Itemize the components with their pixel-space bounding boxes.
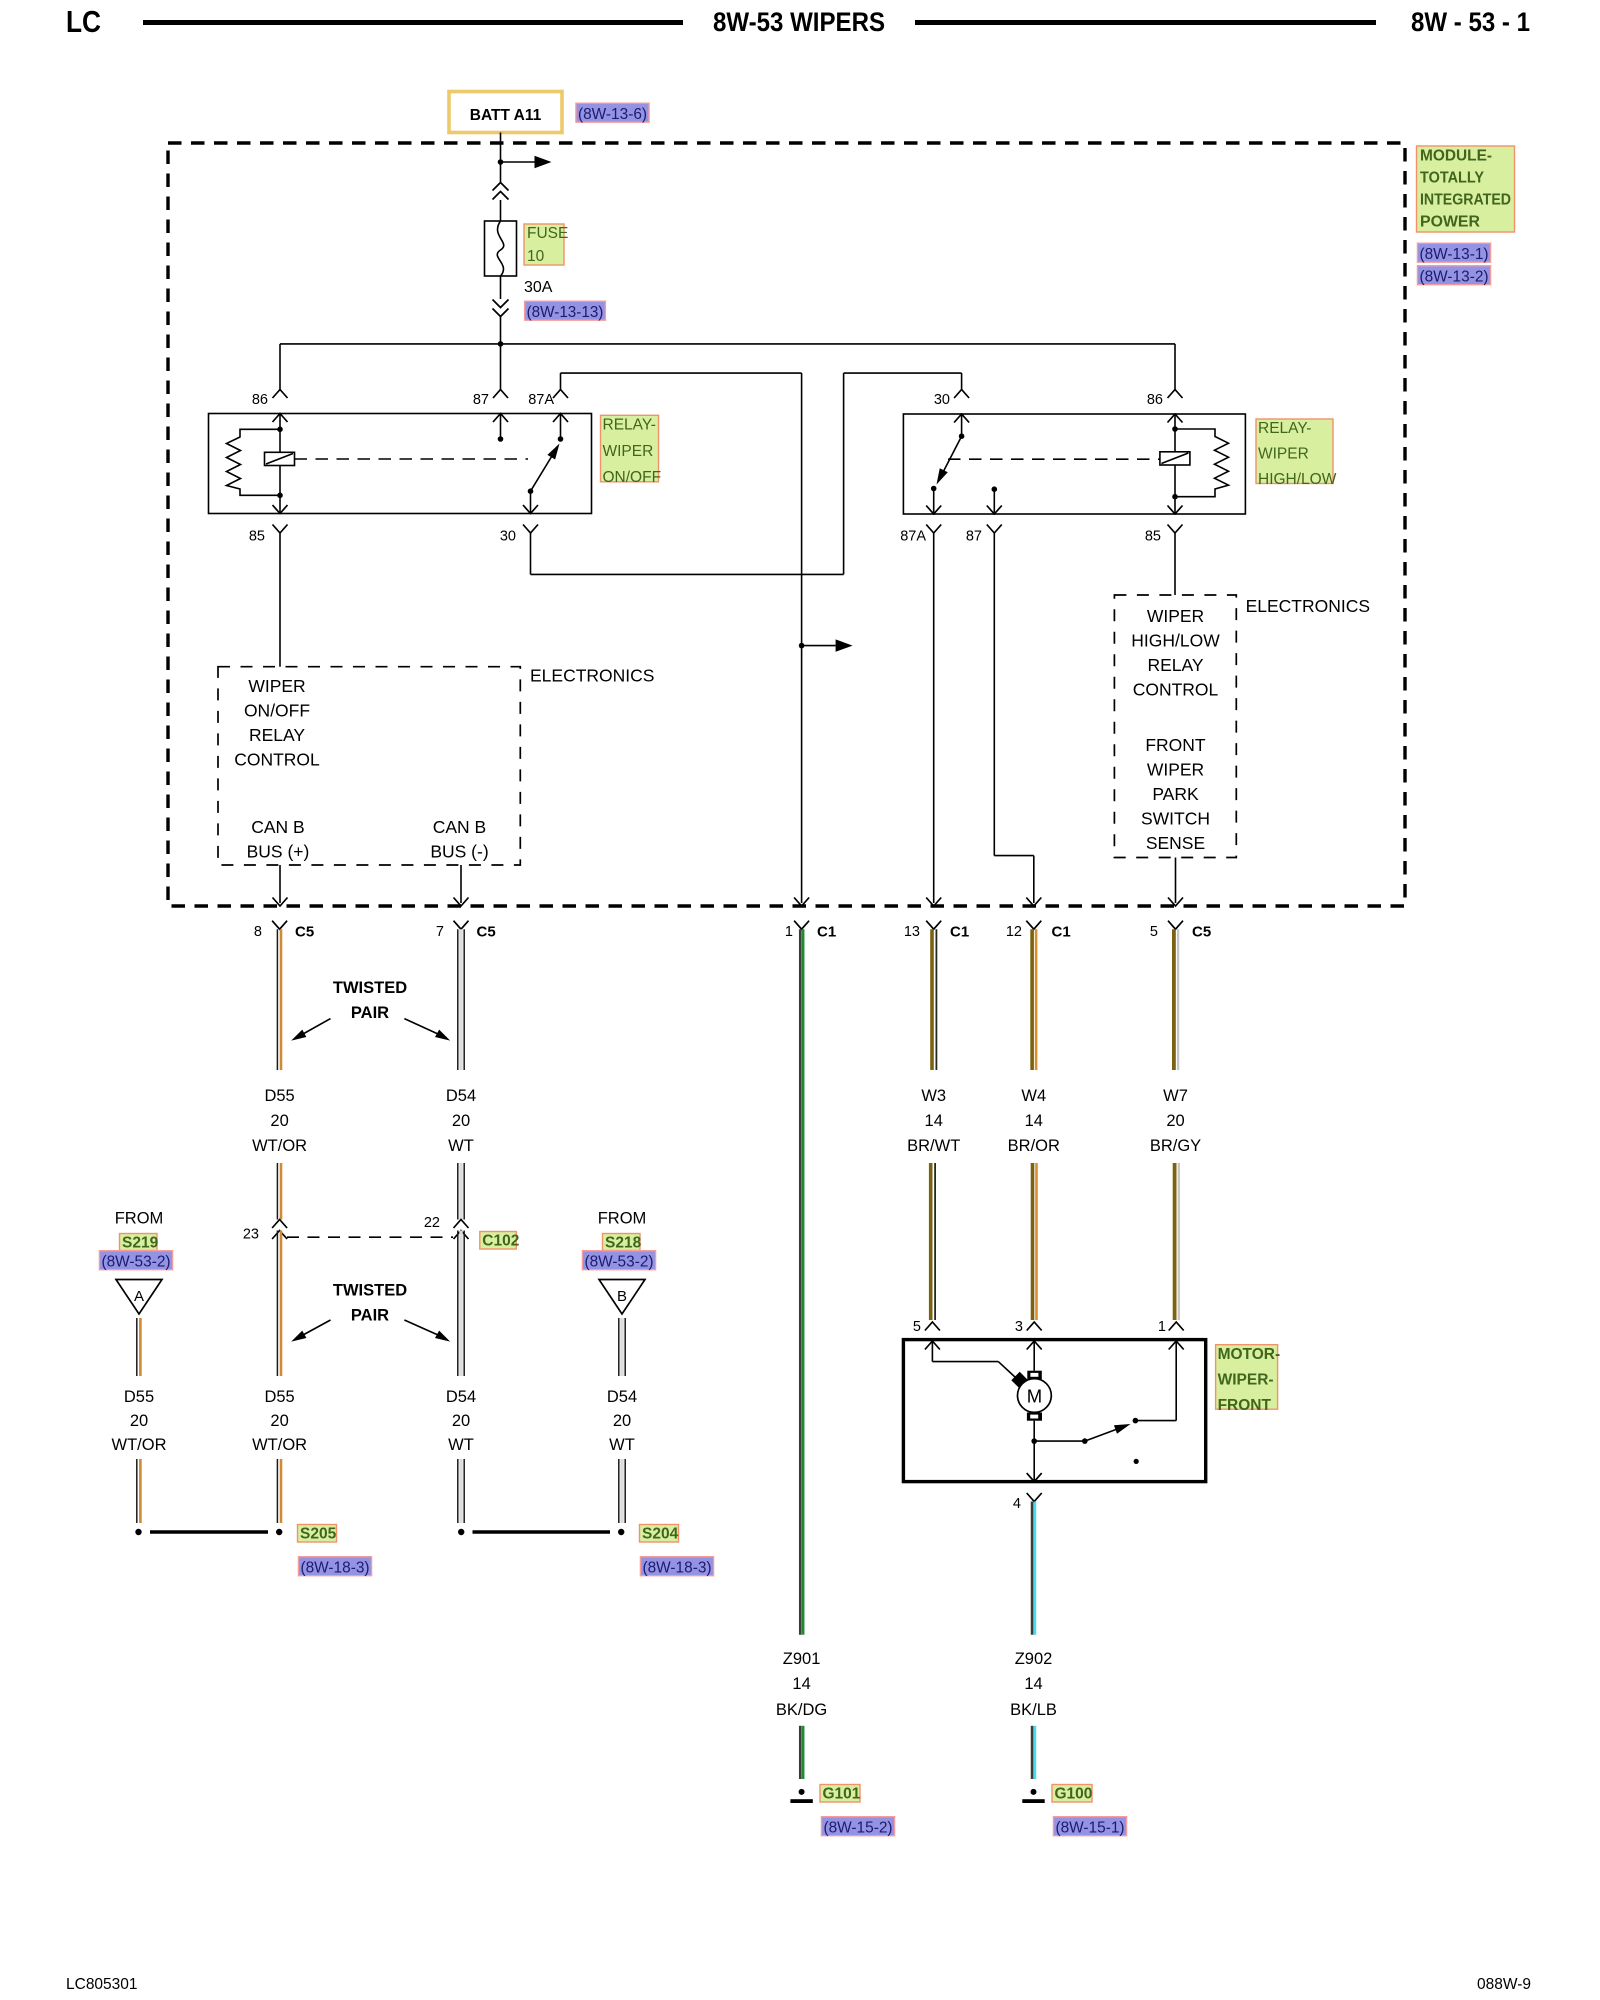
- svg-text:20: 20: [270, 1412, 288, 1430]
- svg-text:PAIR: PAIR: [351, 1004, 389, 1022]
- relay1 pin 87 stub: [500, 414, 502, 440]
- svg-text:BR/GY: BR/GY: [1150, 1137, 1201, 1155]
- svg-text:(8W-13-1): (8W-13-1): [1419, 246, 1488, 263]
- header rule left: [143, 20, 683, 25]
- svg-text:WIPER: WIPER: [603, 443, 654, 460]
- svg-text:BK/DG: BK/DG: [776, 1701, 827, 1719]
- motor pin 1 box-edge arrow: [1169, 1341, 1184, 1350]
- motor pin 4 internal wire: [1033, 1441, 1035, 1482]
- label G100: [1052, 1785, 1092, 1803]
- wire fuse to chevron: [500, 276, 502, 299]
- relay1 pin 30 stub: [530, 491, 532, 513]
- relay K1 RELAY-WIPER ON/OFF box: [209, 414, 592, 514]
- svg-text:ON/OFF: ON/OFF: [244, 701, 310, 721]
- relay2 pin 30 stub: [961, 414, 963, 436]
- relay1 coil top junction dot: [277, 427, 283, 433]
- wire W4 BR/OR upper: [1030, 929, 1034, 1070]
- svg-text:M: M: [1027, 1385, 1042, 1406]
- wire 87A net down to ground feed: [801, 373, 803, 903]
- svg-text:D55: D55: [264, 1087, 294, 1105]
- svg-text:86: 86: [252, 392, 268, 408]
- relay2 pin 30 connector chevron: [954, 390, 969, 399]
- wire park switch sense to connector: [1175, 858, 1177, 904]
- wire W4 BR/OR lower: [1031, 1163, 1035, 1320]
- svg-text:14: 14: [925, 1112, 943, 1130]
- svg-text:A: A: [134, 1288, 144, 1305]
- relay2 coil vertical wire: [1174, 414, 1176, 514]
- label MODULE-TOTALLY INTEGRATED POWER: [1417, 146, 1515, 232]
- ground G101 symbol: [799, 1789, 805, 1795]
- svg-text:W7: W7: [1163, 1087, 1188, 1105]
- label MOTOR-WIPER-FRONT: [1216, 1345, 1278, 1410]
- label C102: [480, 1232, 517, 1250]
- relay1 actuation dashed link: [295, 458, 529, 460]
- wire Z902 BK/LB upper: [1031, 1502, 1034, 1635]
- svg-text:PARK: PARK: [1152, 784, 1199, 804]
- motor brush top: [1027, 1371, 1042, 1379]
- relay K2 RELAY-WIPER HIGH/LOW box: [903, 414, 1245, 514]
- connector pin 8 C5: [272, 921, 287, 930]
- svg-text:(8W-15-2): (8W-15-2): [823, 1820, 892, 1837]
- motor armature circle M: [1018, 1379, 1052, 1413]
- svg-text:W3: W3: [921, 1087, 946, 1105]
- label S205: [298, 1525, 337, 1543]
- svg-text:WIPER: WIPER: [1147, 760, 1204, 780]
- svg-text:C5: C5: [477, 924, 496, 941]
- svg-text:S205: S205: [300, 1526, 337, 1543]
- splice S204 bus: [473, 1530, 611, 1534]
- wire chevron to fuse: [500, 200, 502, 221]
- relay2 switch arm: [940, 436, 962, 479]
- off-page connector double chevron up: [493, 183, 509, 191]
- svg-text:22: 22: [424, 1215, 440, 1231]
- svg-text:14: 14: [1025, 1112, 1043, 1130]
- svg-text:BATT A11: BATT A11: [470, 107, 542, 124]
- svg-text:86: 86: [1147, 392, 1163, 408]
- motor pin 3 box-edge arrow: [1027, 1341, 1042, 1350]
- svg-text:CAN B: CAN B: [433, 817, 486, 837]
- connector C102 pin 22 chevron: [454, 1220, 469, 1229]
- wire CAN B plus to connector: [279, 865, 281, 903]
- svg-text:FUSE: FUSE: [527, 225, 568, 242]
- svg-text:BUS (-): BUS (-): [430, 842, 488, 862]
- svg-text:20: 20: [452, 1112, 470, 1130]
- wire D55 from triangle A: [136, 1318, 138, 1376]
- relay1 switch arm: [531, 449, 557, 492]
- wire relay2 87A down to connector: [933, 533, 935, 903]
- wire D55 WT/OR upper segment: [276, 929, 278, 1070]
- svg-text:S218: S218: [605, 1235, 642, 1252]
- wire bus down to relay1 pin 87: [500, 344, 502, 390]
- svg-text:(8W-15-1): (8W-15-1): [1055, 1820, 1124, 1837]
- svg-text:B: B: [617, 1288, 627, 1305]
- svg-text:30: 30: [934, 392, 950, 408]
- svg-text:D54: D54: [607, 1388, 637, 1406]
- twisted pair arrow right upper: [404, 1019, 438, 1034]
- svg-text:RELAY: RELAY: [1147, 655, 1203, 675]
- wire 30 net horizontal: [844, 372, 962, 374]
- svg-text:ON/OFF: ON/OFF: [603, 469, 662, 486]
- svg-text:87A: 87A: [900, 529, 926, 545]
- relay1 pin 87A stub: [560, 414, 562, 440]
- svg-text:C102: C102: [482, 1233, 519, 1250]
- svg-text:G100: G100: [1055, 1786, 1093, 1803]
- svg-text:SENSE: SENSE: [1146, 833, 1205, 853]
- arrow feed continues right: [501, 161, 535, 163]
- svg-text:(8W-13-13): (8W-13-13): [527, 304, 604, 321]
- wire bus down to relay2 pin 86: [1174, 344, 1176, 390]
- wire bus fuse output horizontal: [280, 343, 1175, 345]
- svg-text:C5: C5: [295, 924, 314, 941]
- svg-text:ELECTRONICS: ELECTRONICS: [1246, 596, 1370, 616]
- twisted pair arrow left lower: [303, 1320, 331, 1335]
- header rule right: [915, 20, 1376, 25]
- svg-text:C1: C1: [1052, 924, 1071, 941]
- motor park switch common wire: [1034, 1440, 1085, 1442]
- ground G100 symbol: [1031, 1789, 1037, 1795]
- svg-text:5: 5: [1150, 924, 1158, 940]
- connector pin 7 C5: [454, 921, 469, 930]
- motor M1 MOTOR-WIPER-FRONT box: [903, 1340, 1205, 1482]
- motor pin 3 internal wire: [1033, 1341, 1035, 1371]
- svg-text:BR/OR: BR/OR: [1008, 1137, 1060, 1155]
- relay2 coil resistor zigzag: [1175, 429, 1229, 497]
- wire stub to relay1 pin 87A: [560, 373, 562, 389]
- relay2 coil top junction dot: [1172, 426, 1178, 432]
- svg-text:7: 7: [436, 924, 444, 940]
- svg-text:PAIR: PAIR: [351, 1307, 389, 1325]
- wire stub to relay2 pin 30: [961, 373, 963, 389]
- wire BATT A11 to fuse: [500, 133, 502, 183]
- off-page triangle B: [599, 1280, 645, 1315]
- motor pin 4 connector chevron: [1027, 1493, 1042, 1502]
- relay1 pin 87 connector chevron: [493, 390, 508, 399]
- relay1 pin 85 box-edge arrow: [273, 505, 288, 514]
- relay2 pin 86 connector chevron: [1168, 390, 1183, 399]
- svg-text:(8W-18-3): (8W-18-3): [642, 1560, 711, 1577]
- svg-text:TOTALLY: TOTALLY: [1420, 170, 1485, 187]
- svg-text:C1: C1: [950, 924, 969, 941]
- svg-text:1: 1: [785, 924, 793, 940]
- motor park switch alternate contact dot: [1134, 1459, 1139, 1464]
- svg-text:87: 87: [473, 392, 489, 408]
- svg-text:FROM: FROM: [115, 1210, 164, 1228]
- junction dot battery feed: [498, 159, 504, 165]
- reference label (8W-13-2): [1417, 266, 1490, 285]
- reference label (8W-15-1): [1053, 1817, 1126, 1836]
- svg-text:WT: WT: [448, 1436, 474, 1454]
- svg-text:20: 20: [1166, 1112, 1184, 1130]
- off-page connector double chevron down: [493, 300, 509, 308]
- svg-text:BK/LB: BK/LB: [1010, 1701, 1057, 1719]
- wire relay1 pin85 to electronics: [279, 533, 281, 667]
- off-page triangle A: [116, 1280, 162, 1315]
- svg-text:Z902: Z902: [1015, 1650, 1053, 1668]
- svg-text:D55: D55: [264, 1388, 294, 1406]
- svg-text:S204: S204: [642, 1526, 679, 1543]
- svg-text:LC: LC: [66, 4, 101, 39]
- svg-text:WIPER: WIPER: [1258, 446, 1309, 463]
- label RELAY-WIPER HIGH/LOW: [1256, 419, 1333, 484]
- svg-text:12: 12: [1006, 924, 1022, 940]
- connector pin 12 C1: [1026, 921, 1041, 930]
- motor lower brush wire: [1033, 1421, 1035, 1441]
- reference label (8W-53-2) left: [99, 1251, 172, 1270]
- motor pin 1 connector chevron: [1169, 1322, 1184, 1331]
- connector pin 1 C1: [794, 921, 809, 930]
- junction dot ground feed: [799, 643, 805, 649]
- svg-text:W4: W4: [1021, 1087, 1046, 1105]
- wire Z901 BK/DG lower: [799, 1726, 802, 1779]
- svg-text:85: 85: [249, 529, 265, 545]
- svg-text:13: 13: [904, 924, 920, 940]
- svg-text:5: 5: [913, 1319, 921, 1335]
- svg-text:MODULE-: MODULE-: [1420, 148, 1492, 165]
- relay2 pin 87A stub: [933, 489, 935, 515]
- svg-text:14: 14: [792, 1675, 810, 1693]
- wire W3 BR/WT upper: [930, 929, 934, 1070]
- svg-text:WIPER-: WIPER-: [1218, 1371, 1274, 1388]
- relay2 pin 85 box-edge arrow: [1168, 506, 1183, 515]
- svg-text:RELAY: RELAY: [249, 725, 305, 745]
- svg-text:23: 23: [243, 1227, 259, 1243]
- relay1 pin 87A connector chevron: [553, 390, 568, 399]
- svg-text:14: 14: [1024, 1675, 1042, 1693]
- relay2 actuation dashed link: [948, 458, 1160, 460]
- svg-text:G101: G101: [823, 1786, 861, 1803]
- relay1 pin 85 connector chevron: [273, 525, 288, 534]
- reference label (8W-13-6): [576, 103, 649, 122]
- label G101: [820, 1785, 860, 1803]
- wire D54 col B lower: [620, 1459, 623, 1523]
- svg-text:LC805301: LC805301: [66, 1976, 138, 1993]
- svg-text:3: 3: [1015, 1319, 1023, 1335]
- relay1 coil resistor zigzag: [227, 429, 281, 495]
- svg-text:20: 20: [130, 1412, 148, 1430]
- svg-text:C5: C5: [1192, 924, 1211, 941]
- wire bus down to relay1 pin 86: [279, 344, 281, 390]
- splice S205 bus: [150, 1530, 268, 1534]
- relay1 pin 30 connector chevron: [523, 525, 538, 534]
- svg-text:D54: D54: [446, 1388, 476, 1406]
- wire D54 above splice: [459, 1459, 462, 1523]
- electronics dashed box wiper high/low relay control: [1114, 595, 1236, 858]
- svg-text:8W - 53 - 1: 8W - 53 - 1: [1411, 7, 1530, 37]
- relay1 pin 86 box-edge arrow: [273, 414, 288, 423]
- svg-text:(8W-13-6): (8W-13-6): [578, 106, 647, 123]
- svg-text:INTEGRATED: INTEGRATED: [1420, 192, 1511, 209]
- wire relay2 87 down to connector: [993, 533, 995, 856]
- connector C102 pin 23 chevron: [272, 1220, 287, 1229]
- relay2 pin 87 connector chevron: [987, 525, 1002, 534]
- svg-text:TWISTED: TWISTED: [333, 979, 407, 997]
- wire Z901 BK/DG upper: [799, 929, 802, 1634]
- svg-text:85: 85: [1145, 529, 1161, 545]
- wire Z902 BK/LB lower: [1031, 1726, 1034, 1779]
- motor brush diamond: [1011, 1372, 1028, 1389]
- svg-text:WT/OR: WT/OR: [252, 1436, 307, 1454]
- motor pin 5 connector chevron: [925, 1322, 940, 1331]
- svg-text:FROM: FROM: [598, 1210, 647, 1228]
- arrow ground feed continues right: [802, 645, 836, 647]
- svg-text:WT: WT: [448, 1137, 474, 1155]
- relay2 pin 85 connector chevron: [1168, 525, 1183, 534]
- wire W7 BR/GY upper: [1172, 929, 1176, 1070]
- reference label (8W-18-3) left: [298, 1557, 371, 1576]
- svg-text:WT/OR: WT/OR: [252, 1137, 307, 1155]
- svg-text:(8W-53-2): (8W-53-2): [101, 1254, 170, 1271]
- svg-text:10: 10: [527, 248, 545, 265]
- label RELAY-WIPER ON/OFF: [601, 415, 659, 482]
- connector C102 dashed body: [287, 1236, 453, 1238]
- relay2 pin 87A connector chevron: [926, 525, 941, 534]
- relay1 coil vertical wire: [279, 414, 281, 514]
- svg-text:(8W-53-2): (8W-53-2): [584, 1254, 653, 1271]
- module boundary dashed box TIPM: [168, 143, 1405, 906]
- wire CAN B minus to connector: [460, 865, 462, 903]
- svg-text:8: 8: [254, 924, 262, 940]
- connector pin 5 C5: [1168, 921, 1183, 930]
- svg-text:MOTOR-: MOTOR-: [1218, 1346, 1281, 1363]
- wire W7 BR/GY lower: [1173, 1163, 1177, 1320]
- svg-text:C1: C1: [817, 924, 836, 941]
- svg-text:87: 87: [966, 529, 982, 545]
- wire relay1 pin30 to 30 net: [530, 533, 532, 574]
- svg-text:CONTROL: CONTROL: [234, 750, 320, 770]
- svg-text:RELAY-: RELAY-: [603, 417, 656, 434]
- svg-text:(8W-13-2): (8W-13-2): [1419, 269, 1488, 286]
- svg-text:BR/WT: BR/WT: [907, 1137, 960, 1155]
- motor park switch arm: [1085, 1427, 1124, 1442]
- reference label (8W-18-3) right: [640, 1557, 713, 1576]
- svg-text:S219: S219: [122, 1235, 159, 1252]
- relay2 pin 86 box-edge arrow: [1168, 414, 1183, 423]
- relay2 pin 87 stub: [993, 489, 995, 514]
- svg-text:HIGH/LOW: HIGH/LOW: [1258, 471, 1337, 488]
- wire D55 WT/OR to C102: [276, 1163, 278, 1220]
- relay1 pin 86 connector chevron: [273, 390, 288, 399]
- wire D54 from triangle B: [620, 1318, 623, 1376]
- svg-text:87A: 87A: [528, 392, 554, 408]
- svg-text:TWISTED: TWISTED: [333, 1282, 407, 1300]
- svg-text:4: 4: [1013, 1496, 1021, 1512]
- svg-text:30A: 30A: [524, 279, 553, 296]
- svg-text:Z901: Z901: [783, 1650, 821, 1668]
- svg-text:WIPER: WIPER: [248, 676, 305, 696]
- svg-text:POWER: POWER: [1420, 214, 1480, 231]
- arrowhead Z901 at module boundary: [794, 898, 809, 907]
- relay2 coil element box: [1160, 452, 1190, 465]
- svg-text:D55: D55: [124, 1388, 154, 1406]
- wire W3 BR/WT lower: [929, 1163, 933, 1320]
- wire D55 col A lower: [136, 1459, 138, 1523]
- connector pin 13 C1: [926, 921, 941, 930]
- svg-text:(8W-18-3): (8W-18-3): [300, 1560, 369, 1577]
- wire D55 above splice: [276, 1459, 278, 1523]
- svg-text:ELECTRONICS: ELECTRONICS: [530, 666, 654, 686]
- motor brush bottom: [1027, 1413, 1042, 1421]
- reference label (8W-15-2): [821, 1817, 894, 1836]
- svg-text:WT: WT: [609, 1436, 635, 1454]
- svg-text:RELAY-: RELAY-: [1258, 420, 1311, 437]
- reference label (8W-53-2) right: [582, 1251, 655, 1270]
- svg-text:1: 1: [1158, 1319, 1166, 1335]
- electronics dashed box wiper on/off relay control: [218, 667, 520, 865]
- twisted pair arrow right lower: [404, 1320, 438, 1335]
- svg-text:CONTROL: CONTROL: [1133, 680, 1219, 700]
- fuse F10 symbol: [485, 221, 517, 276]
- motor park switch wire to pin 1: [1135, 1420, 1176, 1422]
- svg-text:20: 20: [452, 1412, 470, 1430]
- wire D54 WT upper segment: [459, 929, 462, 1070]
- wire D54 WT to C102: [459, 1163, 462, 1220]
- relay1 coil element box: [265, 452, 295, 465]
- motor junction dot: [1031, 1438, 1037, 1444]
- wire D54 lower to splice: [459, 1231, 462, 1377]
- wire 87A net horizontal: [561, 372, 802, 374]
- relay2 coil bottom junction dot: [1172, 494, 1178, 500]
- motor pin 5 internal wire to brush: [931, 1341, 933, 1362]
- svg-text:WIPER: WIPER: [1147, 606, 1204, 626]
- relay1 coil bottom junction dot: [277, 493, 283, 499]
- battery feed box BATT A11: [449, 92, 562, 133]
- reference label (8W-13-13): [525, 301, 606, 320]
- motor pin 3 connector chevron: [1027, 1322, 1042, 1331]
- wire relay2 pin85 to electronics: [1174, 533, 1176, 595]
- svg-text:FRONT: FRONT: [1145, 735, 1206, 755]
- svg-text:CAN B: CAN B: [251, 817, 304, 837]
- svg-text:FRONT: FRONT: [1218, 1397, 1272, 1414]
- svg-text:8W-53 WIPERS: 8W-53 WIPERS: [713, 7, 885, 37]
- svg-text:30: 30: [500, 529, 516, 545]
- label FUSE 10: [524, 224, 564, 265]
- svg-text:D54: D54: [446, 1087, 476, 1105]
- svg-text:088W-9: 088W-9: [1477, 1976, 1531, 1993]
- svg-text:BUS (+): BUS (+): [247, 842, 310, 862]
- wire D55 lower to splice: [276, 1231, 278, 1377]
- svg-text:SWITCH: SWITCH: [1141, 809, 1210, 829]
- wire fuse output to bus: [500, 317, 502, 344]
- svg-text:20: 20: [270, 1112, 288, 1130]
- svg-text:HIGH/LOW: HIGH/LOW: [1131, 631, 1220, 651]
- label S204: [640, 1525, 679, 1543]
- wire 30 net left riser: [843, 373, 845, 574]
- svg-text:WT/OR: WT/OR: [112, 1436, 167, 1454]
- relay2 pin 30 box-edge arrow: [954, 414, 969, 423]
- junction dot bus at fuse: [498, 341, 504, 347]
- twisted pair arrow left upper: [303, 1019, 331, 1034]
- motor pin 5 box-edge arrow: [925, 1341, 940, 1350]
- svg-text:20: 20: [613, 1412, 631, 1430]
- reference label (8W-13-1): [1417, 243, 1490, 262]
